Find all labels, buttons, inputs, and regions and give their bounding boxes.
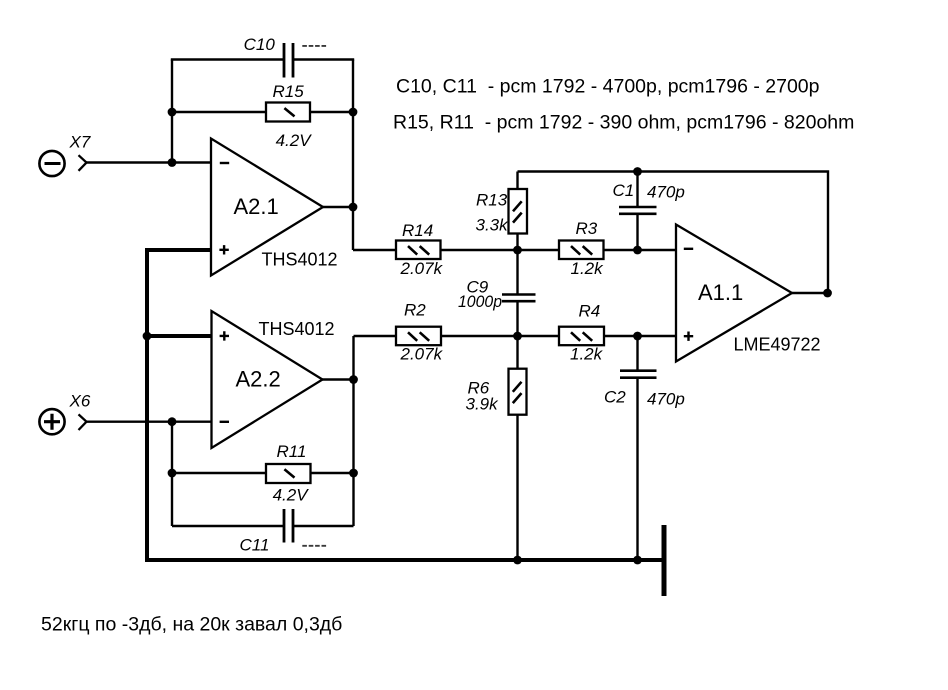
resistor R4 — [559, 301, 604, 363]
svg-text:52кгц по -3дб, на 20к завал 0,: 52кгц по -3дб, на 20к завал 0,3дб — [41, 613, 342, 635]
wire A1.1 output — [792, 292, 828, 294]
svg-text:470p: 470p — [647, 389, 685, 408]
svg-text:3.3k: 3.3k — [476, 216, 510, 235]
junction C1 top / feedback — [633, 167, 642, 176]
junction R15 left / C10 — [168, 108, 177, 117]
svg-text:R2: R2 — [404, 301, 426, 320]
svg-text:R13: R13 — [476, 190, 508, 209]
svg-text:2.07k: 2.07k — [400, 259, 444, 278]
junction R4 / C2 / A1.1 non-inverting input — [633, 332, 642, 341]
junction R15 right / C10 — [349, 108, 358, 117]
svg-text:A2.1: A2.1 — [234, 194, 279, 219]
svg-text:470p: 470p — [647, 182, 685, 201]
wire X6 input row — [87, 421, 212, 423]
wire C11 row — [172, 525, 354, 527]
svg-text:X6: X6 — [69, 392, 91, 411]
junction A2.1 output node — [349, 203, 358, 212]
junction R3 / C1 / A1.1 inverting input — [633, 246, 642, 255]
svg-text:1000p: 1000p — [458, 292, 502, 311]
svg-text:4.2V: 4.2V — [273, 486, 310, 505]
junction bus / A2.2 non-inverting input — [143, 332, 152, 341]
svg-text:R15: R15 — [273, 82, 305, 101]
wire R3 row — [518, 249, 677, 251]
junction X7 input / A2.1 inverting node — [168, 158, 177, 167]
svg-text:2.07k: 2.07k — [400, 345, 444, 364]
svg-text:1.2k: 1.2k — [571, 259, 605, 278]
capacitor C11 — [240, 509, 327, 555]
junction R11 right — [349, 469, 358, 478]
resistor R11 — [266, 442, 311, 505]
wire C9 stubs — [516, 250, 518, 336]
op-amp A2.1 — [211, 139, 338, 276]
svg-text:THS4012: THS4012 — [262, 250, 338, 270]
junction A1.1 output node — [823, 289, 832, 298]
wire R14 row — [353, 249, 518, 251]
op-amp A1.1 — [676, 225, 821, 362]
svg-text:C10: C10 — [244, 35, 276, 54]
connector X6 — [39, 392, 90, 435]
wire thick bus to A2.1 + input — [147, 250, 211, 558]
wire C10 top row — [172, 60, 353, 61]
node B: R2 / C9 / R6 / R4 — [513, 332, 522, 341]
capacitor C9 — [458, 278, 536, 311]
node A: R14 / R13 / C9 / R3 — [513, 246, 522, 255]
wire C1 stubs — [636, 172, 638, 251]
svg-text:R11: R11 — [277, 442, 307, 461]
junction A2.2 output node — [349, 375, 358, 384]
svg-text:THS4012: THS4012 — [259, 319, 335, 339]
wire A2.2 feedback left vertical — [171, 422, 173, 526]
wire A2.1 output — [323, 206, 353, 208]
svg-text:C1: C1 — [613, 181, 635, 200]
svg-text:C11: C11 — [240, 536, 270, 555]
svg-text:R14: R14 — [402, 221, 433, 240]
wire C2 stubs — [636, 336, 638, 560]
junction R11 left — [168, 469, 177, 478]
svg-text:A2.2: A2.2 — [236, 367, 281, 392]
connector X7 — [39, 133, 90, 177]
resistor R14 — [396, 221, 444, 278]
capacitor C1 — [613, 181, 685, 214]
wire bottom ground rail — [145, 558, 662, 562]
wire R11 row — [172, 472, 354, 474]
wire A2.2 output — [323, 378, 354, 380]
svg-text:A1.1: A1.1 — [698, 280, 743, 305]
wire R2 row — [354, 335, 518, 337]
svg-text:3.9k: 3.9k — [466, 395, 500, 414]
wire R4 row — [518, 335, 677, 337]
wire A2.1 feedback left vertical — [171, 60, 173, 163]
wire X7 input row — [87, 161, 212, 163]
op-amp A2.2 — [212, 311, 335, 448]
wire R13 stubs — [516, 172, 518, 251]
svg-text:C2: C2 — [604, 388, 626, 407]
resistor R13 — [476, 189, 528, 235]
resistor R3 — [559, 219, 604, 278]
wire A2.2 feedback right vertical — [352, 336, 354, 526]
junction X6 input / A2.2 inverting node — [168, 417, 177, 426]
capacitor C2 — [604, 371, 685, 409]
resistor R6 — [466, 369, 527, 415]
junction C2 / ground rail — [633, 556, 642, 565]
svg-text:R4: R4 — [579, 301, 601, 320]
resistor R15 — [266, 82, 312, 150]
wire A2.1 feedback right vertical — [352, 60, 354, 251]
svg-text:LME49722: LME49722 — [734, 335, 821, 355]
wire R15 row — [172, 111, 353, 113]
svg-text:X7: X7 — [69, 133, 91, 152]
svg-text:R15, R11 - pcm 1792 - 390 ohm: R15, R11 - pcm 1792 - 390 ohm, pcm1796 -… — [393, 111, 854, 133]
svg-text:R3: R3 — [576, 219, 598, 238]
svg-text:4.2V: 4.2V — [276, 131, 313, 150]
capacitor C10 — [244, 35, 327, 78]
svg-text:C10, C11 - pcm 1792 - 4700p,: C10, C11 - pcm 1792 - 4700p, pcm1796 - 2… — [396, 76, 820, 98]
wire R6 stubs — [516, 336, 518, 560]
junction R6 / ground rail — [513, 556, 522, 565]
wire thick branch to A2.2 + input — [147, 334, 212, 338]
resistor R2 — [396, 301, 444, 364]
wire top feedback — [518, 172, 829, 294]
svg-text:1.2k: 1.2k — [570, 345, 604, 364]
ground — [662, 525, 667, 596]
